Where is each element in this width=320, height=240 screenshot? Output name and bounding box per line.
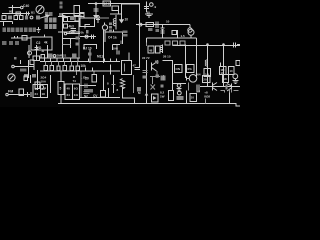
capacitor C19	[177, 84, 181, 88]
svg-text:24: 24	[35, 92, 39, 96]
wire vert	[36, 45, 38, 60]
capacitor C7	[30, 75, 32, 83]
wire input top	[9, 7, 21, 9]
svg-text:26 10: 26 10	[163, 55, 171, 59]
svg-text:40: 40	[67, 87, 71, 91]
terminal T2	[12, 65, 15, 68]
resistor R20	[156, 46, 161, 53]
svg-text:47: 47	[133, 64, 137, 68]
resistor R41	[101, 90, 106, 97]
label A1	[161, 75, 166, 80]
svg-text:18: 18	[223, 77, 227, 81]
label marks	[226, 84, 228, 89]
terminal T4	[97, 16, 100, 19]
label C2 inside	[36, 41, 48, 51]
diode D2 arrow down	[121, 19, 123, 21]
label C marks	[156, 74, 160, 77]
capacitor C14	[144, 7, 149, 9]
label cap right	[143, 75, 147, 78]
capacitor C20	[177, 91, 181, 95]
node J3	[220, 62, 222, 66]
label +8 7	[197, 89, 201, 93]
svg-text:4k: 4k	[44, 41, 48, 45]
label marks	[76, 36, 80, 39]
diode D3	[151, 85, 156, 90]
wire vert x62	[62, 14, 64, 34]
wire vert x207	[207, 45, 209, 87]
meter M1	[36, 6, 44, 14]
label CV	[93, 94, 98, 98]
wire box corner	[123, 91, 135, 104]
wire vert x186	[185, 90, 187, 103]
label 8a	[107, 82, 109, 86]
wire vert x47	[47, 45, 49, 58]
diode D1 arrow	[95, 13, 97, 18]
wire y14	[110, 13, 121, 15]
wire y37	[11, 37, 31, 39]
capacitor C16	[160, 30, 164, 38]
svg-text:10: 10	[230, 69, 234, 73]
label L Dk	[81, 76, 88, 80]
wire drop x146b	[146, 42, 148, 46]
label tuning text	[45, 12, 53, 16]
svg-text:F 1: F 1	[81, 15, 86, 19]
wire y31.8b	[105, 31, 123, 33]
label SMP21	[57, 54, 67, 58]
ground GND5	[232, 79, 238, 84]
label 20b	[85, 77, 89, 81]
svg-text:164: 164	[196, 73, 201, 77]
label 4k3	[69, 25, 75, 29]
resistor R15	[75, 16, 79, 22]
label 10k	[81, 64, 87, 68]
label 10b	[166, 20, 170, 24]
resistor box R11	[58, 82, 64, 95]
wire vert x79	[78, 15, 80, 34]
label 1.5	[181, 34, 186, 38]
node circle	[85, 35, 88, 38]
terminal jack	[188, 28, 192, 32]
capacitor C18	[197, 84, 199, 92]
bus y37.9	[147, 37, 197, 39]
resistor R6	[22, 36, 27, 40]
wire vert x50	[50, 75, 52, 93]
resistor R3	[2, 16, 6, 20]
label 10 1k	[123, 31, 128, 37]
svg-text:10: 10	[166, 20, 170, 24]
resistor R5	[20, 16, 24, 20]
label -9	[154, 5, 157, 9]
resistor R28	[229, 66, 235, 74]
node dot	[207, 44, 209, 46]
wire vert x62b	[62, 34, 64, 59]
resistor R9	[35, 82, 40, 88]
wire y97.5	[80, 97, 120, 99]
label under R17	[148, 28, 153, 31]
resistor R22	[173, 41, 178, 45]
wire left y21	[0, 21, 13, 23]
resistor R14	[64, 24, 68, 28]
meter M2	[8, 74, 15, 81]
resistor marks col	[109, 23, 112, 32]
node dot	[223, 44, 225, 46]
label H	[72, 53, 76, 58]
terminal T8	[64, 32, 66, 34]
node tick	[113, 30, 115, 32]
ground GND3	[145, 14, 153, 17]
svg-text:24: 24	[67, 93, 71, 97]
capacitor C11	[94, 9, 99, 11]
svg-text:5: 5	[60, 87, 62, 91]
transistor Q7	[231, 83, 233, 91]
capacitor C3	[25, 16, 28, 20]
wire vert x177	[177, 30, 179, 38]
resistor R4	[14, 16, 18, 20]
diode D4 arrow up	[145, 93, 149, 96]
inductor L3	[205, 60, 207, 66]
label M marks	[84, 89, 93, 92]
label 10	[125, 18, 129, 22]
svg-text:10A: 10A	[41, 79, 47, 83]
wire vert x122b	[122, 87, 124, 91]
wire y66	[14, 66, 34, 68]
IC box U2	[80, 18, 94, 26]
wire y13 mid	[63, 13, 85, 15]
wire antenna arrow	[40, 15, 49, 18]
label under wire	[20, 69, 27, 72]
resistor R24	[175, 64, 183, 72]
node J2	[95, 3, 97, 5]
label N2	[84, 94, 88, 98]
wire stub x76	[76, 71, 78, 75]
label text column	[59, 2, 63, 17]
wire vert x122	[122, 32, 124, 44]
svg-text:80: 80	[9, 10, 13, 14]
resistor R2	[16, 12, 21, 15]
transistor Q6	[211, 82, 213, 90]
terminal T7	[53, 55, 56, 58]
transistor Q8	[151, 63, 153, 71]
capacitor C5	[15, 36, 18, 38]
transistor Q4	[189, 75, 197, 83]
wire vert x223	[223, 45, 225, 87]
wire stub	[3, 22, 5, 27]
wire vert x96	[95, 4, 97, 13]
label R 74	[73, 75, 77, 83]
svg-text:1W: 1W	[160, 95, 165, 99]
resistor R8	[30, 60, 34, 64]
bus A y58.2	[40, 57, 80, 59]
IC box U3	[122, 61, 132, 75]
inductor L2	[161, 45, 163, 54]
resistor R36	[57, 66, 60, 70]
resistor R38	[70, 66, 73, 70]
wire stub x81	[80, 71, 82, 75]
wire y85.6	[80, 85, 96, 87]
wire junction x172	[172, 83, 186, 85]
resistor R16	[112, 6, 118, 10]
label 0k	[81, 31, 85, 35]
wire drop x146	[146, 38, 148, 42]
svg-text:98: 98	[35, 87, 39, 91]
svg-text:0%: 0%	[188, 67, 193, 71]
wire vert x37	[37, 70, 39, 90]
capacitor C24	[135, 68, 141, 70]
capacitor C15	[156, 22, 158, 28]
wire stub left	[120, 41, 122, 45]
wire vert x140 long	[139, 4, 141, 68]
svg-text:20: 20	[203, 78, 207, 82]
label relay pins	[35, 87, 46, 96]
label 8.2 1W	[160, 91, 165, 99]
wire vert x103	[103, 30, 105, 63]
wire vert x158	[156, 60, 159, 78]
label W4	[48, 53, 52, 58]
wire vert x146c	[146, 60, 148, 75]
resistor R7	[33, 56, 40, 61]
wire stub x92b	[93, 71, 95, 74]
label +8 8	[204, 91, 210, 99]
svg-text:74: 74	[73, 79, 77, 83]
node stubs	[86, 68, 93, 72]
wire y16 arrow	[58, 16, 70, 18]
wire vert x108	[108, 88, 110, 98]
capacitor C12	[91, 34, 93, 39]
node J1	[12, 5, 14, 8]
wire vert x81	[80, 75, 82, 98]
terminal T1	[21, 6, 24, 9]
wire vert x152	[152, 77, 154, 84]
label under C15	[156, 29, 160, 32]
label caption row (ground warning)	[3, 28, 37, 32]
label 26 10	[163, 55, 171, 59]
wire vert x34	[33, 61, 35, 71]
wire corner x172	[162, 61, 172, 90]
capacitor C9	[70, 16, 74, 20]
capacitor C22	[85, 83, 87, 88]
wire vert left	[28, 45, 30, 58]
svg-text:B1: B1	[31, 11, 35, 15]
label mark	[24, 74, 28, 78]
svg-text:10k: 10k	[81, 64, 87, 68]
wire vert x185	[185, 45, 187, 78]
wire y21	[63, 21, 81, 23]
resistor R40	[92, 74, 96, 82]
wire y44.3	[63, 43, 71, 45]
bus C y71.2	[40, 70, 120, 72]
resistor R29	[168, 90, 173, 100]
wire y17.8	[94, 17, 109, 19]
svg-text:ON: ON	[176, 67, 181, 71]
node tick	[44, 35, 46, 38]
svg-text:10: 10	[191, 96, 195, 100]
wire vert x188	[188, 82, 190, 90]
capacitor CD	[236, 61, 240, 66]
label M11	[97, 55, 103, 59]
svg-text:SMP21: SMP21	[57, 54, 67, 58]
ground stub	[161, 25, 165, 31]
inductor L1	[115, 15, 117, 30]
label b	[86, 30, 89, 34]
svg-text:-9: -9	[154, 5, 157, 9]
label mark	[14, 57, 17, 60]
wire y38.6	[63, 38, 81, 40]
label A2	[161, 84, 164, 87]
transistor Q2	[102, 25, 107, 30]
svg-text:C2: C2	[36, 41, 40, 45]
label A	[42, 49, 45, 53]
wire vert x133	[133, 75, 135, 93]
label mark	[32, 74, 36, 78]
terminal T3	[6, 93, 8, 95]
wire vert x146	[146, 2, 148, 13]
svg-text:12.6: 12.6	[104, 2, 110, 6]
ground GND4	[177, 87, 182, 91]
label 164	[196, 73, 201, 77]
wire vert stub	[20, 60, 22, 64]
wire corner	[85, 24, 90, 28]
capacitor C6	[35, 48, 39, 50]
wire corner small	[220, 90, 224, 92]
svg-text:C4 1a: C4 1a	[108, 36, 117, 40]
resistor R1 label	[9, 10, 13, 14]
relay box K1	[33, 85, 48, 98]
transistor Q1	[28, 51, 32, 55]
resistor R25	[187, 64, 195, 72]
label 2 4	[41, 75, 47, 83]
capacitor C4	[36, 16, 40, 20]
resistor R26	[204, 68, 210, 76]
svg-text:19R: 19R	[113, 47, 119, 51]
capacitor C2	[8, 16, 12, 20]
label parts row	[2, 41, 19, 45]
wire bus y13	[2, 13, 30, 15]
wire vert x70	[70, 39, 72, 48]
label FM	[8, 90, 13, 94]
wire vert x90	[89, 50, 91, 64]
svg-text:8Ω8: 8Ω8	[204, 95, 210, 99]
svg-text:10: 10	[125, 18, 129, 22]
resistor R13	[64, 17, 68, 21]
capacitor C8	[28, 92, 32, 97]
capacitor C13	[117, 50, 119, 54]
resistor R37	[63, 65, 66, 70]
wire vert x103b	[103, 75, 105, 90]
wire vert x146b	[146, 75, 148, 104]
wire y86.6	[200, 86, 240, 88]
resistor R39	[76, 66, 79, 70]
label 8b	[117, 88, 119, 92]
label row x142	[142, 56, 150, 60]
label M?	[138, 91, 141, 95]
tall tick	[110, 65, 112, 75]
resistor R12	[74, 6, 80, 17]
resistor R19	[148, 46, 154, 53]
resistor R21	[165, 41, 170, 45]
label C4 1a	[108, 36, 117, 40]
label 7dB	[69, 30, 76, 34]
node A	[30, 16, 33, 19]
capacitor C40 label	[23, 4, 29, 8]
resistor R17	[146, 22, 153, 26]
bus B y61.7	[40, 61, 120, 63]
capacitor C17	[234, 42, 241, 47]
wire vert	[117, 10, 119, 14]
resistor R33	[41, 54, 44, 58]
label 19R	[113, 47, 119, 51]
diode box D5	[152, 94, 159, 102]
label k mark	[137, 87, 141, 92]
svg-text:+8: +8	[197, 89, 201, 93]
resistor R31	[202, 75, 210, 82]
svg-text:48: 48	[149, 49, 153, 53]
svg-text:9Ω: 9Ω	[74, 87, 79, 91]
label 47	[133, 64, 137, 68]
wire vert x113	[113, 75, 115, 93]
transformer box	[19, 89, 24, 95]
resistor R35	[50, 65, 53, 70]
label note text block	[45, 18, 57, 29]
wire vert x128	[128, 52, 130, 60]
wire stub top	[112, 44, 120, 50]
svg-text:18: 18	[42, 92, 46, 96]
wire vert x117	[116, 45, 118, 50]
svg-text:4k3: 4k3	[69, 25, 75, 29]
resistor R30	[190, 93, 196, 101]
label marks2	[76, 42, 80, 45]
resistor R32	[222, 74, 228, 82]
transistor Q5	[233, 74, 238, 79]
terminal T5	[150, 3, 154, 7]
capacitor C10	[71, 29, 77, 31]
resistor R10	[24, 76, 28, 81]
wire vert x61	[60, 71, 62, 103]
svg-text:1Ω: 1Ω	[74, 93, 79, 97]
junction marks	[88, 53, 92, 56]
svg-text:#2 7#: #2 7#	[142, 56, 150, 60]
wire y36.6	[80, 36, 96, 38]
svg-text:7dB: 7dB	[69, 30, 76, 34]
ground GND2	[96, 18, 100, 22]
svg-text:FM: FM	[8, 90, 13, 94]
resistor R23	[180, 41, 185, 45]
terminal T6	[139, 23, 142, 26]
ground GND1	[37, 27, 41, 33]
wire vert x28	[28, 60, 30, 78]
bus ticks up	[45, 58, 117, 62]
IC box U1	[31, 37, 52, 50]
wire frame corner	[122, 4, 141, 18]
wire vert x78b	[78, 34, 80, 59]
resistor zigzag RZ	[120, 79, 124, 89]
resistor R18	[172, 30, 176, 34]
svg-text:C40: C40	[23, 4, 29, 8]
svg-text:0k: 0k	[81, 31, 85, 35]
wire vert x163	[163, 75, 165, 80]
wire vert x105	[104, 30, 106, 42]
chain wire y24.6	[136, 24, 190, 26]
bus y44.6	[172, 44, 240, 46]
resistor R34	[44, 65, 47, 70]
wire drop	[12, 8, 14, 14]
resistor box m	[80, 12, 84, 16]
wire bottom bus	[58, 104, 240, 107]
capacitor C1	[27, 12, 29, 16]
component cluster box	[65, 84, 80, 100]
capacitor C21	[229, 88, 238, 92]
wire y31.8	[58, 31, 80, 33]
wire vert x205	[204, 99, 206, 104]
